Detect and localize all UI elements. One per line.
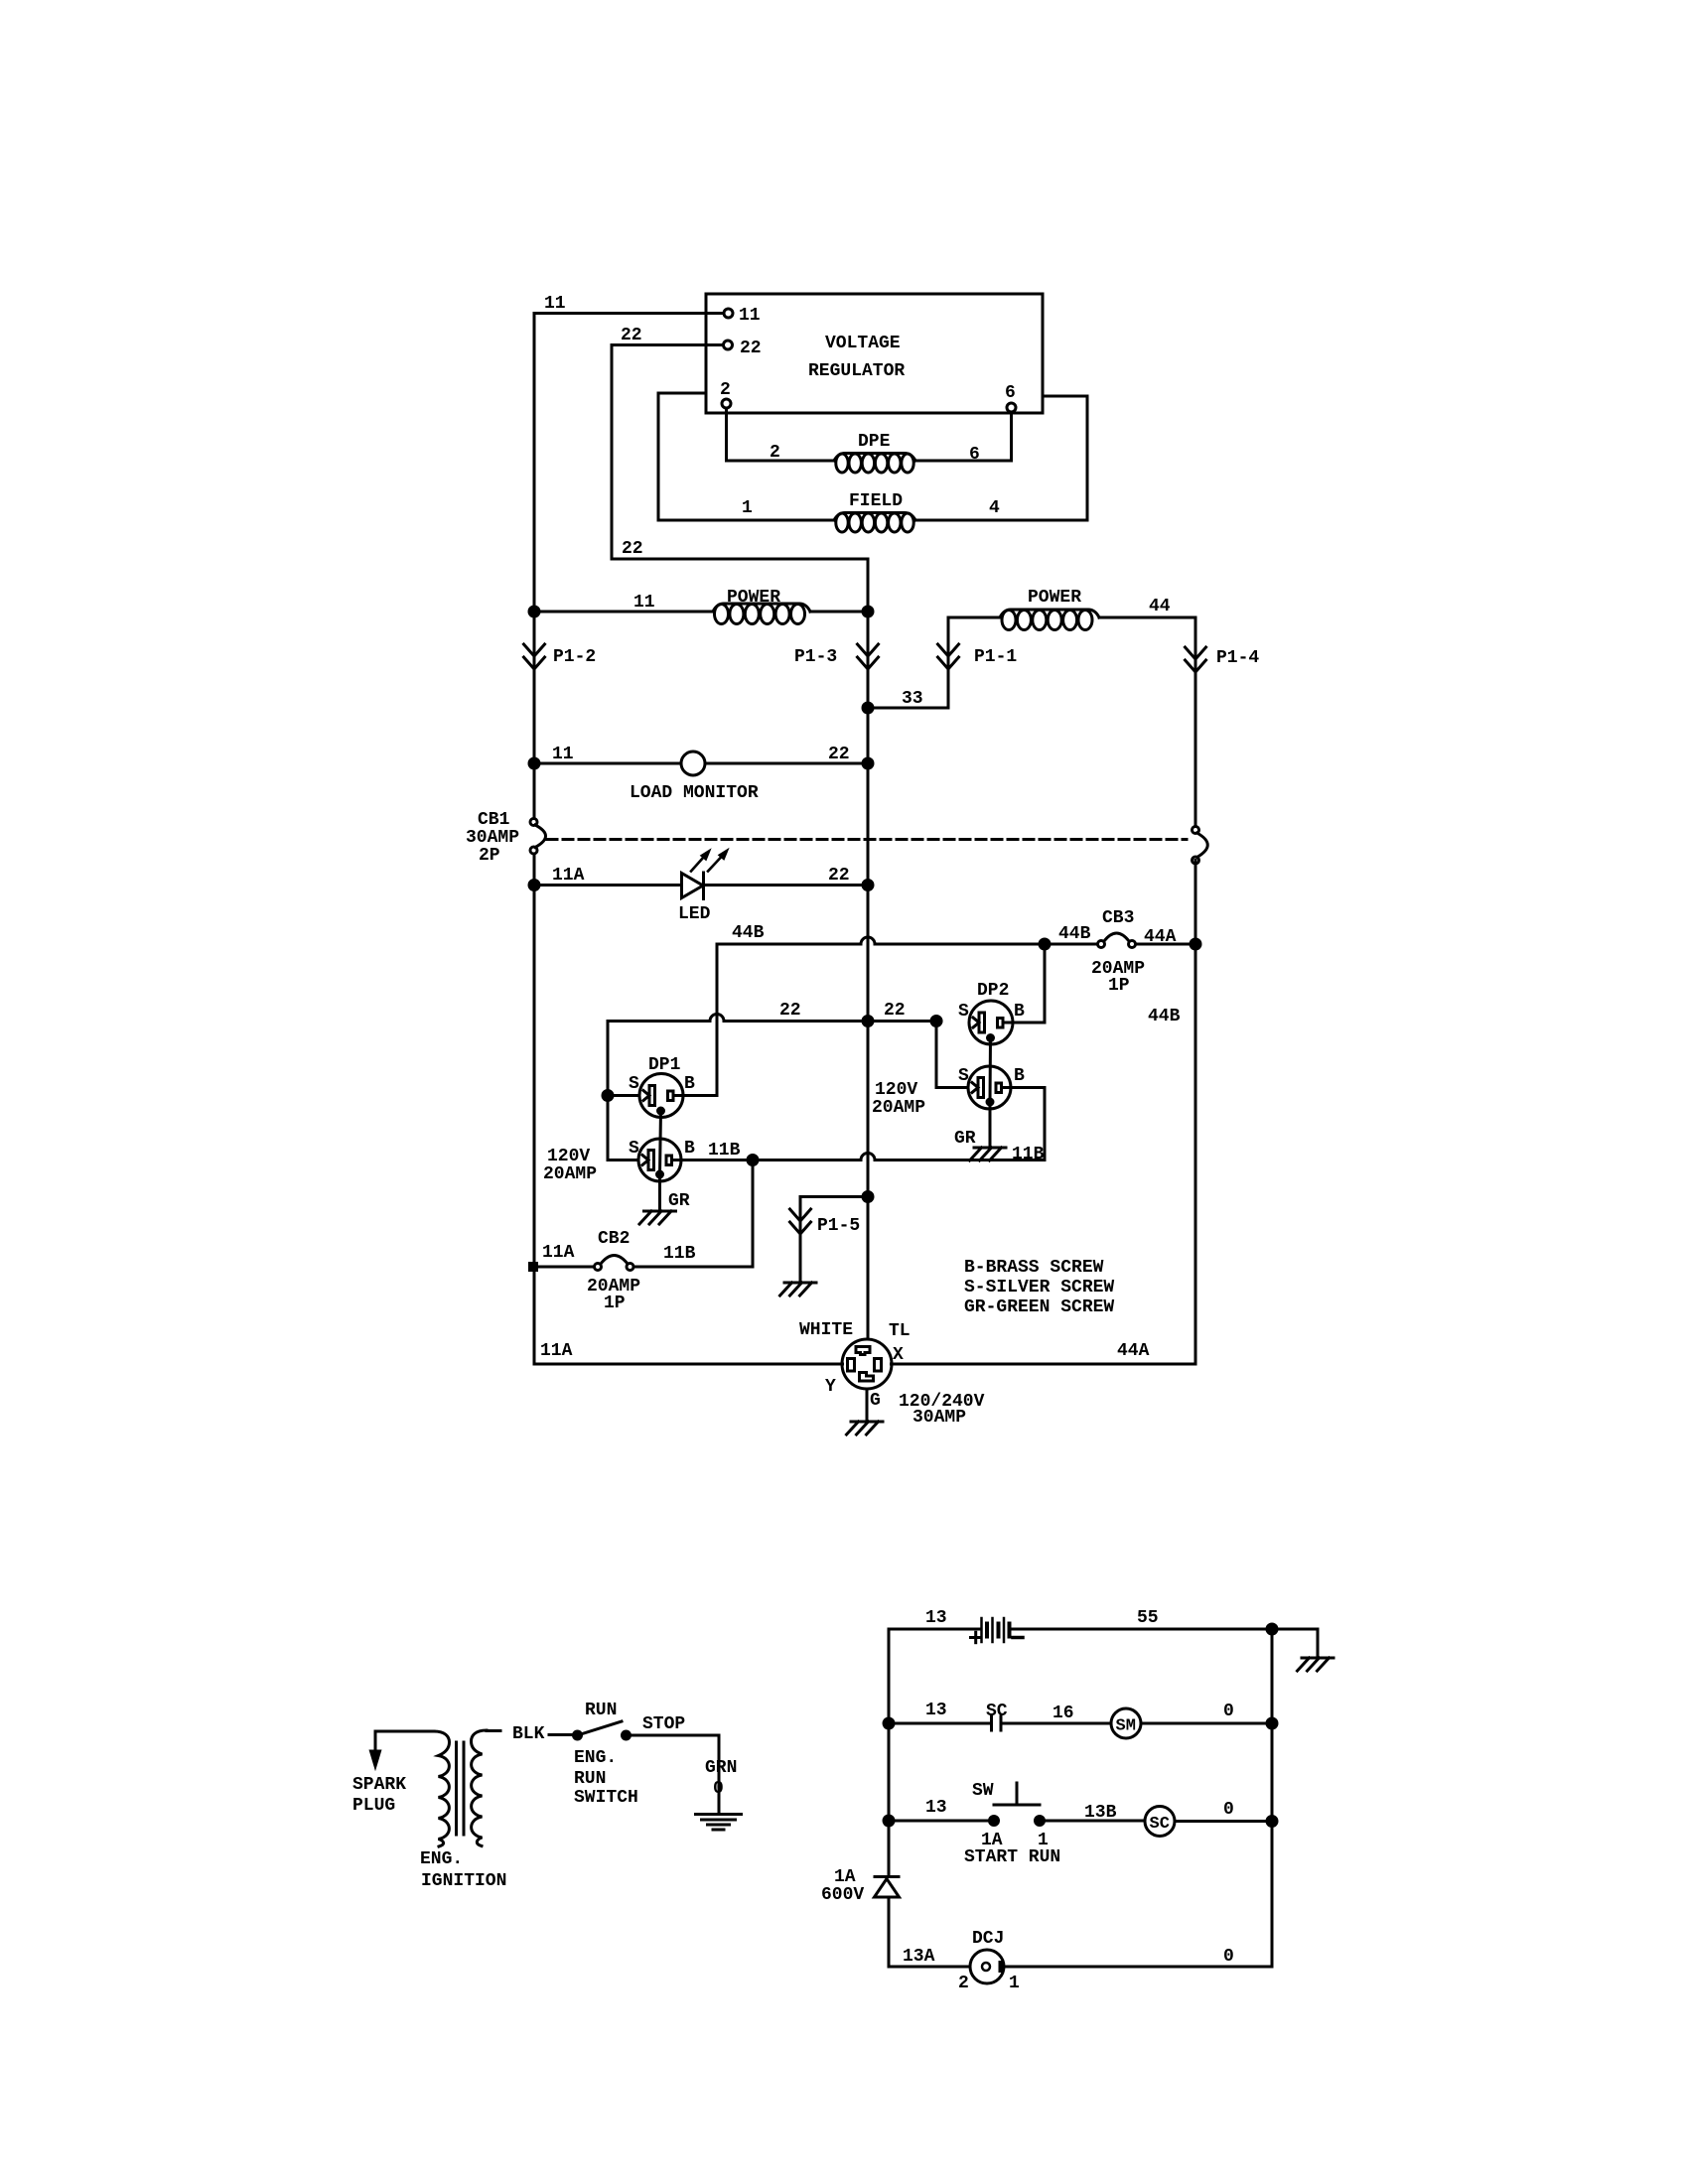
svg-text:44: 44 — [1149, 597, 1171, 616]
svg-text:VOLTAGE: VOLTAGE — [825, 334, 901, 353]
right bus of engine control — [1271, 1629, 1274, 1967]
wire DP1 upper brass to 44B vertical — [683, 1094, 717, 1097]
svg-text:WHITE: WHITE — [799, 1320, 853, 1340]
wire node 0 SM rung — [1141, 1702, 1277, 1728]
circuit breaker CB2 — [528, 1229, 696, 1313]
svg-text:55: 55 — [1137, 1608, 1159, 1628]
wire node 33 tap — [863, 617, 948, 713]
twist lock receptacle TL — [799, 1320, 985, 1428]
svg-text:33: 33 — [902, 689, 923, 709]
svg-text:20AMP: 20AMP — [543, 1164, 597, 1184]
svg-text:G: G — [870, 1391, 881, 1411]
wire STOP to ground — [631, 1735, 738, 1815]
svg-text:B: B — [684, 1074, 695, 1094]
circuit breaker CB1 right pole — [1193, 827, 1208, 865]
svg-text:B-BRASS SCREW: B-BRASS SCREW — [964, 1258, 1104, 1278]
svg-text:11: 11 — [552, 745, 574, 764]
wire node 44 to right bus — [1099, 597, 1195, 830]
svg-text:DCJ: DCJ — [972, 1929, 1004, 1949]
svg-text:REGULATOR: REGULATOR — [808, 361, 905, 381]
voltage regulator U1 — [706, 294, 1043, 413]
wire right bus node 44A — [1194, 861, 1197, 1365]
svg-text:P1-3: P1-3 — [794, 647, 837, 667]
starter motor SM — [1111, 1708, 1141, 1738]
load monitor — [630, 751, 759, 803]
wire node 22 horizontal run to main bus — [612, 539, 868, 559]
svg-text:SC: SC — [1150, 1815, 1170, 1834]
svg-text:4: 4 — [989, 498, 1000, 518]
svg-text:PLUG: PLUG — [352, 1796, 395, 1816]
battery 12V — [889, 1608, 1159, 1643]
left bus of engine control — [888, 1629, 891, 1875]
start contactor coil SC — [1145, 1807, 1175, 1837]
svg-text:30AMP: 30AMP — [466, 828, 519, 848]
wire left bus node 11A lower — [533, 851, 536, 1364]
wire node 11 to regulator pin 11 — [534, 294, 724, 314]
wire P1-5 branch — [800, 1192, 873, 1284]
svg-text:20AMP: 20AMP — [872, 1098, 925, 1118]
svg-text:1A: 1A — [834, 1867, 856, 1887]
svg-text:B: B — [1014, 1066, 1025, 1086]
svg-text:22: 22 — [828, 866, 850, 886]
junction 44B at CB3 branch — [1040, 939, 1050, 949]
svg-text:6: 6 — [969, 445, 980, 465]
svg-text:RUN: RUN — [585, 1701, 617, 1720]
wire node 13A — [889, 1947, 970, 1967]
svg-text:2: 2 — [958, 1974, 969, 1993]
svg-text:TL: TL — [889, 1321, 911, 1341]
svg-text:2: 2 — [720, 380, 731, 400]
svg-text:POWER: POWER — [727, 588, 780, 608]
wire POWER left to main bus — [810, 611, 868, 614]
junction node 11 at left bus — [529, 607, 539, 616]
wire DPE pin 6 to regulator pin 6 — [915, 412, 1012, 465]
wire node 13B — [1045, 1803, 1146, 1823]
engine ignition transformer T1 — [420, 1730, 506, 1891]
svg-text:POWER: POWER — [1028, 588, 1081, 608]
wire regulator pin 2 down to DPE — [727, 408, 835, 463]
DPE winding — [834, 432, 915, 473]
pin 2 of regulator — [720, 380, 731, 408]
svg-text:S-SILVER SCREW: S-SILVER SCREW — [964, 1278, 1114, 1297]
ground at P1-5 — [780, 1283, 817, 1296]
svg-text:DPE: DPE — [858, 432, 891, 452]
svg-text:B: B — [684, 1139, 695, 1159]
connector arrow P1-2 — [524, 644, 597, 669]
svg-text:SM: SM — [1116, 1717, 1136, 1736]
svg-text:13B: 13B — [1084, 1803, 1117, 1823]
circuit breaker CB1 left pole — [466, 810, 546, 866]
svg-text:LOAD MONITOR: LOAD MONITOR — [630, 783, 759, 803]
LED — [678, 852, 727, 925]
svg-text:ENG.: ENG. — [420, 1849, 463, 1869]
engine run switch — [574, 1701, 686, 1808]
svg-text:2P: 2P — [479, 846, 500, 866]
pin 11 of regulator — [724, 306, 761, 326]
svg-text:SC: SC — [986, 1702, 1008, 1721]
wire DP1 silver side vertical — [603, 1022, 639, 1160]
svg-text:120V: 120V — [875, 1080, 917, 1100]
svg-text:0: 0 — [1223, 1702, 1234, 1721]
svg-text:STOP: STOP — [642, 1714, 685, 1734]
duplex receptacle DP1 upper outlet — [629, 1055, 695, 1118]
svg-text:13: 13 — [925, 1798, 947, 1818]
connector arrow P1-1 — [938, 644, 1018, 669]
svg-text:44B: 44B — [732, 923, 765, 943]
svg-text:16: 16 — [1052, 1704, 1074, 1723]
svg-text:22: 22 — [828, 745, 850, 764]
svg-text:GR-GREEN SCREW: GR-GREEN SCREW — [964, 1297, 1114, 1317]
svg-text:B: B — [1014, 1002, 1025, 1022]
wire node 11B rung with hop — [672, 1141, 1046, 1165]
duplex receptacle DP2 upper outlet — [958, 981, 1025, 1044]
wire node 44B rung with hop over main bus — [717, 923, 1098, 944]
svg-text:0: 0 — [1223, 1800, 1234, 1820]
wire left bus node 11 upper — [533, 314, 536, 823]
svg-text:X: X — [893, 1345, 904, 1365]
svg-text:S: S — [958, 1066, 969, 1086]
LED rung wire node 11A / 22 — [529, 866, 873, 890]
ground at battery negative — [1272, 1629, 1333, 1671]
ground at TL pin G — [847, 1389, 884, 1434]
connector arrow P1-5 — [790, 1209, 861, 1236]
wire transformer to spark plug — [375, 1731, 434, 1751]
wire DP2 lower brass to 11B — [1011, 1088, 1045, 1160]
svg-text:S: S — [629, 1139, 639, 1159]
connector arrow P1-4 — [1186, 647, 1260, 672]
main bus node 22 vertical — [867, 559, 870, 1339]
svg-text:13A: 13A — [903, 1947, 935, 1967]
start run switch SW pushbutton — [964, 1781, 1060, 1867]
wire node 55 to right bus — [1012, 1624, 1278, 1634]
wire node 11 power rung — [534, 593, 713, 613]
svg-text:1P: 1P — [604, 1294, 626, 1313]
circuit breaker CB3 — [1058, 908, 1177, 996]
ground GR of DP1 — [639, 1177, 690, 1224]
svg-text:22: 22 — [622, 539, 643, 559]
connector arrow P1-3 — [794, 644, 879, 669]
svg-text:11A: 11A — [552, 866, 585, 886]
svg-text:DP1: DP1 — [648, 1055, 681, 1075]
svg-text:GR: GR — [954, 1129, 976, 1149]
svg-text:22: 22 — [621, 326, 642, 345]
DP2 center link — [987, 1035, 994, 1106]
svg-text:11B: 11B — [708, 1141, 741, 1160]
svg-text:22: 22 — [884, 1001, 906, 1021]
wire FIELD pin 1 to regulator left edge — [658, 393, 834, 520]
duplex receptacle DP2 lower outlet — [872, 1066, 1025, 1118]
svg-text:1: 1 — [742, 498, 753, 518]
svg-text:P1-1: P1-1 — [974, 647, 1017, 667]
wire node 16 — [1001, 1704, 1111, 1723]
earth ground GRN — [696, 1815, 742, 1831]
spark plug arrow — [352, 1751, 406, 1816]
diode D1 1A 600V — [821, 1867, 900, 1967]
junction node 22 at main bus — [863, 607, 873, 616]
svg-text:SWITCH: SWITCH — [574, 1788, 638, 1808]
svg-text:2: 2 — [770, 443, 780, 463]
wire node 11A to TL — [534, 1341, 843, 1364]
ground GR of DP2 — [954, 1105, 1045, 1164]
wire node 22 to regulator pin 22 — [612, 326, 724, 559]
svg-text:11: 11 — [544, 294, 566, 314]
POWER winding right — [948, 588, 1099, 630]
FIELD winding — [834, 491, 915, 532]
wire node 0 SW rung — [1175, 1800, 1277, 1827]
svg-text:DP2: DP2 — [977, 981, 1009, 1001]
wire node 22 rung to DP2 with hop — [608, 1001, 941, 1026]
DP1 center link — [657, 1108, 664, 1177]
svg-text:SW: SW — [972, 1781, 994, 1801]
svg-text:S: S — [629, 1074, 639, 1094]
svg-text:30AMP: 30AMP — [912, 1408, 966, 1428]
svg-text:Y: Y — [825, 1377, 836, 1397]
svg-text:11: 11 — [739, 306, 761, 326]
svg-text:1P: 1P — [1108, 976, 1130, 996]
svg-text:22: 22 — [779, 1001, 801, 1021]
svg-text:44B: 44B — [1148, 1007, 1181, 1026]
svg-text:0: 0 — [1223, 1947, 1234, 1967]
wire node 44A to TL — [892, 1341, 1196, 1364]
svg-text:13: 13 — [925, 1701, 947, 1720]
svg-text:11A: 11A — [542, 1243, 575, 1263]
wire FIELD pin 4 to regulator right edge — [915, 396, 1087, 520]
load monitor rung wire node 11 / 22 — [529, 745, 873, 768]
notes screw legend — [964, 1258, 1114, 1317]
wire CB2 to node 11B — [633, 1160, 753, 1268]
svg-text:LED: LED — [678, 904, 711, 924]
pin 22 of regulator — [724, 339, 762, 358]
pin 6 of regulator — [1005, 383, 1016, 412]
wire CB3 to right bus node 44A — [1136, 939, 1201, 1026]
svg-text:GR: GR — [668, 1191, 690, 1211]
svg-text:CB3: CB3 — [1102, 908, 1134, 928]
wire node 44B vertical to DP1 — [716, 944, 719, 1096]
svg-text:44B: 44B — [1058, 924, 1091, 944]
CB1 trip tie dashed line — [547, 838, 1187, 841]
svg-text:120V: 120V — [547, 1147, 590, 1166]
svg-text:GRN: GRN — [705, 1758, 737, 1778]
wire DP2 silver side vertical — [936, 1022, 968, 1088]
svg-text:CB2: CB2 — [598, 1229, 630, 1249]
wire DP2 upper brass to 44B — [1013, 944, 1045, 1023]
svg-text:P1-2: P1-2 — [553, 647, 596, 667]
wire node 0 DCJ rung — [1004, 1947, 1272, 1967]
svg-text:ENG.: ENG. — [574, 1748, 617, 1768]
svg-text:START RUN: START RUN — [964, 1847, 1060, 1867]
wire node 13 SW rung — [884, 1798, 990, 1826]
svg-text:13: 13 — [925, 1608, 947, 1628]
start contact SC capacitor-style contact — [986, 1702, 1008, 1730]
wire BLK from transformer — [487, 1724, 574, 1744]
svg-text:22: 22 — [740, 339, 762, 358]
svg-text:11A: 11A — [540, 1341, 573, 1361]
svg-text:11B: 11B — [663, 1244, 696, 1264]
svg-text:1: 1 — [1009, 1974, 1020, 1993]
svg-text:S: S — [958, 1002, 969, 1022]
svg-text:RUN: RUN — [574, 1769, 606, 1789]
wire node 13 SM rung — [884, 1701, 990, 1728]
svg-text:SPARK: SPARK — [352, 1775, 406, 1795]
svg-text:44A: 44A — [1117, 1341, 1150, 1361]
svg-text:IGNITION: IGNITION — [421, 1871, 506, 1891]
POWER winding left — [713, 588, 810, 624]
duplex receptacle DP1 lower outlet — [543, 1139, 695, 1184]
svg-text:P1-4: P1-4 — [1216, 648, 1259, 668]
DC jack DCJ — [958, 1929, 1020, 1993]
svg-text:CB1: CB1 — [478, 810, 510, 830]
svg-text:6: 6 — [1005, 383, 1016, 403]
svg-text:FIELD: FIELD — [849, 491, 903, 511]
svg-text:0: 0 — [713, 1779, 724, 1799]
svg-text:P1-5: P1-5 — [817, 1216, 860, 1236]
svg-text:600V: 600V — [821, 1885, 864, 1905]
svg-text:11B: 11B — [1012, 1145, 1045, 1164]
svg-text:11: 11 — [633, 593, 655, 613]
svg-text:BLK: BLK — [512, 1724, 545, 1744]
